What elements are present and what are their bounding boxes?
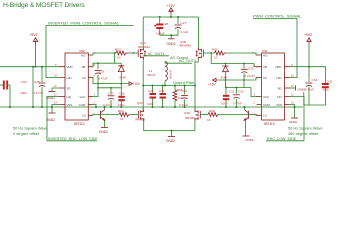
svg-text:VDD: VDD bbox=[67, 65, 73, 69]
wire IC1 VB net bbox=[211, 64, 258, 67]
svg-text:C29: C29 bbox=[148, 89, 154, 93]
supply +15V right flag bbox=[213, 78, 217, 81]
wire filter top rail / AC node bbox=[143, 85, 195, 87]
svg-text:0.47uF: 0.47uF bbox=[99, 76, 108, 80]
wire bottom ground rail bbox=[0, 106, 303, 108]
svg-text:R04: R04 bbox=[118, 109, 124, 113]
svg-text:HIN: HIN bbox=[67, 76, 72, 80]
ground GND2 below Q3 bbox=[243, 135, 250, 137]
svg-text:HO: HO bbox=[263, 54, 268, 58]
wire IC1 VS to +15V flag right bbox=[217, 78, 259, 81]
capacitor C28b left cluster bbox=[120, 88, 122, 96]
wire right VCC net bbox=[226, 80, 252, 88]
junction dots on rail bbox=[170, 16, 172, 18]
wire +15V to rail bbox=[170, 13, 172, 17]
wire Q3 emitter down bbox=[245, 120, 247, 135]
svg-text:C27: C27 bbox=[181, 21, 187, 25]
svg-text:VDD: VDD bbox=[275, 65, 281, 69]
diode D3 bootstrap right bbox=[225, 64, 227, 66]
svg-text:C33: C33 bbox=[327, 80, 333, 84]
wire INVERTED_PWM vertical to IC2 HIN bbox=[46, 26, 59, 78]
svg-text:50 Hz Square Wave: 50 Hz Square Wave bbox=[13, 125, 48, 130]
svg-text:C25: C25 bbox=[34, 80, 40, 84]
transistor Q2 npn left bbox=[100, 111, 102, 119]
svg-text:10: 10 bbox=[120, 117, 124, 121]
svg-text:U$2: U$2 bbox=[79, 49, 85, 53]
wire left bridge leg (Q1A drain down) bbox=[142, 60, 144, 111]
svg-text:100n: 100n bbox=[323, 88, 330, 92]
svg-text:100n: 100n bbox=[147, 102, 154, 106]
svg-text:4148: 4148 bbox=[119, 75, 126, 79]
svg-text:180 degree offset: 180 degree offset bbox=[288, 131, 319, 136]
ground GND2 below Q2 bbox=[101, 127, 108, 129]
svg-text:0.47uF: 0.47uF bbox=[305, 88, 314, 92]
wire INVERTED_PWM label underline bbox=[46, 25, 134, 27]
wire +5V2 rail left bbox=[0, 66, 59, 68]
svg-text:C24: C24 bbox=[21, 80, 27, 84]
ground GND2 below left rail bbox=[51, 107, 53, 113]
capacitor C27t 0.1uF bbox=[177, 17, 179, 24]
svg-text:R06: R06 bbox=[209, 109, 215, 113]
resistor R08 filter bbox=[174, 86, 176, 91]
svg-text:0 degree offset: 0 degree offset bbox=[13, 131, 40, 136]
svg-text:IRF9540: IRF9540 bbox=[179, 44, 191, 48]
wire HO junction down to VB net bbox=[114, 53, 116, 63]
capacitor C30b filter bbox=[162, 86, 164, 94]
svg-text:50 Hz Square Wave: 50 Hz Square Wave bbox=[288, 125, 323, 130]
ground GND2 bottom center bbox=[171, 131, 173, 136]
wire Q1D drain into right leg bbox=[194, 107, 196, 110]
svg-text:10: 10 bbox=[214, 56, 218, 60]
svg-text:VB: VB bbox=[82, 65, 86, 69]
resistor R03 bbox=[116, 51, 129, 55]
svg-text:4148: 4148 bbox=[221, 76, 228, 80]
wire +15V rail bbox=[143, 16, 198, 18]
wire HO junction down to VB net right bbox=[210, 53, 212, 64]
svg-text:GND2: GND2 bbox=[166, 139, 175, 143]
svg-text:C26: C26 bbox=[99, 70, 105, 74]
ground GND2 top center bbox=[170, 35, 172, 38]
wire IC1 VSS to ground bbox=[290, 105, 295, 118]
svg-text:SD: SD bbox=[278, 86, 282, 90]
svg-text:COM: COM bbox=[79, 103, 86, 107]
svg-text:68mH: 68mH bbox=[147, 73, 155, 77]
svg-text:C30: C30 bbox=[159, 89, 165, 93]
svg-text:INVERTED_RHC_LOW_SIDE: INVERTED_RHC_LOW_SIDE bbox=[48, 137, 98, 141]
svg-text:10: 10 bbox=[117, 56, 121, 60]
wire right bridge leg (Q1B drain down) bbox=[195, 60, 198, 111]
wire IC2 VCC stub connect bbox=[91, 88, 98, 97]
svg-text:GND2: GND2 bbox=[289, 120, 297, 124]
svg-text:VSS: VSS bbox=[276, 103, 282, 107]
IC2 IR2110 box bbox=[65, 53, 88, 120]
svg-text:0.47uF: 0.47uF bbox=[33, 91, 43, 95]
wire Q3 collector to ground rail bbox=[244, 107, 246, 110]
svg-text:R05: R05 bbox=[212, 48, 218, 52]
wire left vertical branch bbox=[32, 67, 34, 107]
svg-text:SD: SD bbox=[67, 86, 71, 90]
capacitor C30 bootstrap right bbox=[243, 64, 245, 69]
IC1 IR2110 box bbox=[262, 53, 285, 120]
wire IC2 VS to +15V flag bbox=[91, 78, 129, 84]
wire Q2 collector to ground rail bbox=[104, 107, 106, 110]
pin stubs IC1 bbox=[257, 55, 291, 115]
svg-text:0.1uF: 0.1uF bbox=[181, 30, 189, 34]
svg-text:HIN: HIN bbox=[277, 76, 282, 80]
wire IC2 VSS to ground bbox=[52, 105, 59, 108]
net label INVERTED_RHC_LOW_SIDE bbox=[47, 97, 59, 141]
wire IC2 HO to R03 bbox=[91, 53, 116, 55]
wire IC1 SD to ground bbox=[290, 87, 295, 89]
wire Q1B gate bbox=[204, 52, 212, 54]
svg-text:VCC: VCC bbox=[263, 95, 269, 99]
wire Q1A source to +15V rail bbox=[142, 17, 144, 48]
wire PWM vertical to IC1 HIN bbox=[290, 19, 297, 78]
wire PWM label underline bbox=[253, 18, 297, 20]
svg-text:IRF9540: IRF9540 bbox=[138, 45, 150, 49]
supply +15V left flag bbox=[129, 82, 133, 85]
capacitor C34 0.47uF bbox=[308, 67, 310, 82]
svg-text:C31: C31 bbox=[229, 90, 235, 94]
svg-text:C28: C28 bbox=[163, 22, 169, 26]
wire left VCC net bbox=[98, 84, 121, 88]
capacitor C24 100n bbox=[0, 84, 3, 86]
capacitor C26 bootstrap left bbox=[97, 63, 99, 69]
wire Q1D gate to R06 bbox=[200, 114, 208, 116]
svg-text:+15V: +15V bbox=[208, 83, 216, 87]
svg-text:100uF: 100uF bbox=[156, 31, 165, 35]
net label RHC_LOW_SIDE bbox=[290, 97, 304, 141]
svg-text:C34: C34 bbox=[312, 78, 318, 82]
svg-text:+5V2: +5V2 bbox=[30, 33, 38, 37]
wire R03 to Q1A gate bbox=[129, 52, 134, 54]
svg-text:IRF530: IRF530 bbox=[185, 116, 195, 120]
svg-text:C27: C27 bbox=[108, 91, 114, 95]
svg-text:LIN: LIN bbox=[67, 95, 72, 99]
svg-text:GND2: GND2 bbox=[298, 87, 306, 91]
wire Q1A gate bbox=[134, 52, 139, 54]
wire cap commons bbox=[160, 34, 178, 36]
capacitor C32 right bbox=[235, 88, 237, 94]
svg-text:0.47uF: 0.47uF bbox=[179, 103, 188, 107]
svg-text:100n: 100n bbox=[20, 91, 27, 95]
diode D2 bootstrap left bbox=[120, 63, 122, 65]
capacitor C31b filter bbox=[184, 86, 186, 95]
capacitor C29 filter bbox=[152, 86, 154, 94]
svg-text:AC_OUT2: AC_OUT2 bbox=[179, 59, 196, 63]
ground GND2 at IC2 SD bbox=[52, 88, 59, 91]
wire Q1D source to common bbox=[194, 121, 196, 131]
svg-text:GND2: GND2 bbox=[99, 130, 108, 134]
wire Q1C source to common bbox=[144, 121, 195, 131]
wire R04 to Q1C gate bbox=[129, 114, 138, 116]
wire +5V2 rail right bbox=[290, 66, 326, 68]
ground GND2 at IC1 VSS bbox=[291, 117, 298, 119]
resistor R06 bbox=[208, 113, 218, 117]
svg-text:RHC_LOW_SIDE: RHC_LOW_SIDE bbox=[267, 137, 297, 141]
svg-text:AC_OUT1: AC_OUT1 bbox=[148, 52, 165, 56]
svg-text:VS: VS bbox=[263, 76, 267, 80]
svg-text:10: 10 bbox=[207, 118, 211, 122]
svg-text:0.47uF: 0.47uF bbox=[233, 102, 242, 106]
svg-text:LIN: LIN bbox=[277, 95, 282, 99]
wire Q1C drain into left leg bbox=[142, 107, 144, 110]
svg-text:100n: 100n bbox=[118, 103, 125, 107]
svg-text:C28: C28 bbox=[119, 91, 125, 95]
svg-text:Q1D: Q1D bbox=[184, 111, 191, 115]
wire IC1 HO to R05 bbox=[226, 53, 258, 55]
svg-text:IR2110: IR2110 bbox=[264, 122, 275, 126]
svg-text:GND2: GND2 bbox=[246, 138, 254, 142]
transistor Q3 npn right bbox=[248, 111, 250, 119]
svg-text:H-Bridge & MOSFET Drivers: H-Bridge & MOSFET Drivers bbox=[3, 2, 85, 9]
svg-text:VS: VS bbox=[82, 76, 86, 80]
svg-text:+15V: +15V bbox=[133, 82, 141, 86]
wire AC_OUT2 underline to L1 bbox=[165, 62, 192, 64]
resistor R04 bbox=[119, 113, 129, 117]
svg-text:PWM_CONTROL_SIGNAL: PWM_CONTROL_SIGNAL bbox=[253, 13, 302, 18]
capacitor C25 0.47uF bbox=[41, 67, 43, 82]
svg-text:600mA: 600mA bbox=[169, 70, 173, 79]
svg-text:U$1: U$1 bbox=[262, 49, 268, 53]
wire IC1 VCC stub connect bbox=[251, 88, 258, 97]
svg-text:R03: R03 bbox=[115, 48, 121, 52]
wire Q1B source to +15V rail bbox=[198, 17, 200, 48]
wire AC_OUT1 underline bbox=[143, 55, 169, 57]
svg-text:Output Filter: Output Filter bbox=[173, 80, 195, 85]
capacitor C28t 100uF bbox=[159, 17, 161, 24]
pin stubs IC2 bbox=[59, 55, 93, 115]
wire IC2 COM bbox=[91, 105, 96, 108]
wire IC2 LO row bbox=[91, 114, 119, 117]
svg-text:VB: VB bbox=[263, 65, 267, 69]
svg-text:C31: C31 bbox=[182, 89, 188, 93]
resistor R05 bbox=[215, 51, 227, 55]
svg-text:0.47uF: 0.47uF bbox=[245, 74, 254, 78]
wire right caps ground bbox=[304, 104, 326, 106]
wire Q2 emitter down bbox=[104, 120, 106, 127]
svg-text:VCC: VCC bbox=[80, 95, 86, 99]
capacitor C33 100n bbox=[325, 67, 327, 83]
svg-text:100n: 100n bbox=[221, 102, 228, 106]
capacitor C27b left cluster bbox=[110, 88, 112, 95]
svg-text:IR2110: IR2110 bbox=[74, 122, 85, 126]
svg-text:Q1C: Q1C bbox=[137, 101, 144, 105]
svg-text:INVERTED_PWM_CONTROL_SIGNAL: INVERTED_PWM_CONTROL_SIGNAL bbox=[48, 20, 120, 25]
capacitor C31 right bbox=[225, 88, 227, 95]
svg-text:COM: COM bbox=[263, 103, 270, 107]
svg-text:+5V2: +5V2 bbox=[304, 33, 312, 37]
svg-text:GND2: GND2 bbox=[167, 42, 176, 46]
svg-text:HO: HO bbox=[81, 54, 86, 58]
wire R06 to IC1 LO bbox=[218, 114, 258, 117]
ground GND2 at IC1 SD bbox=[295, 86, 297, 91]
wire IC2 VB net bbox=[91, 63, 121, 66]
svg-text:VSS: VSS bbox=[67, 103, 73, 107]
svg-text:C32: C32 bbox=[238, 90, 244, 94]
